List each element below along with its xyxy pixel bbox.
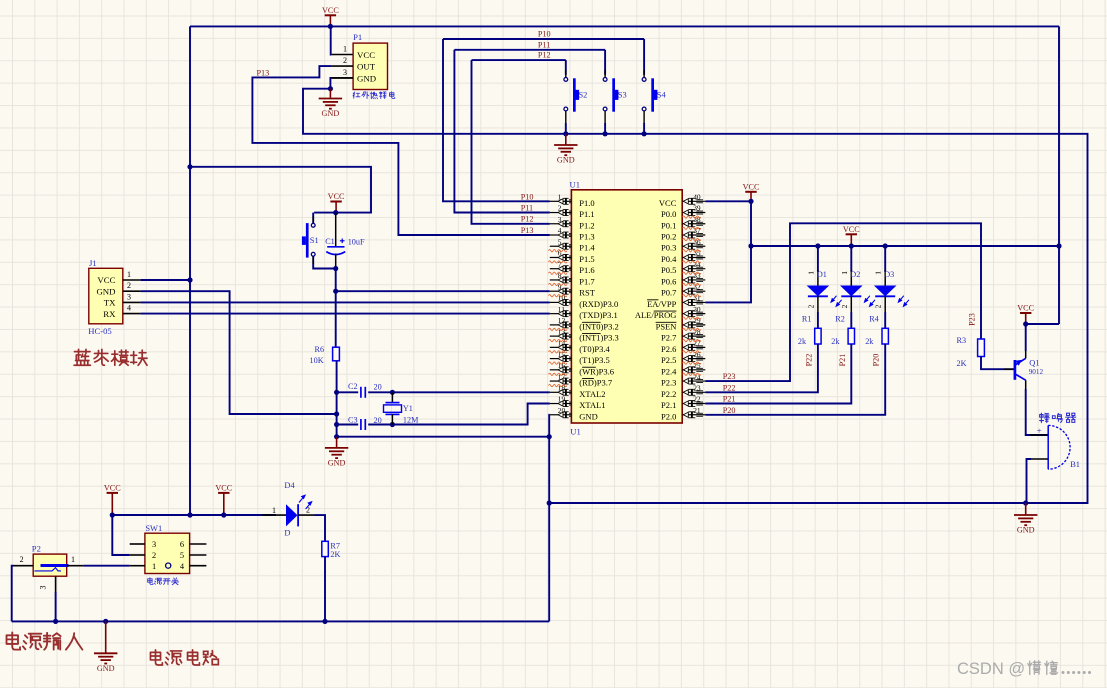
- svg-text:1: 1: [558, 193, 562, 202]
- svg-text:1: 1: [840, 271, 849, 275]
- pin U1.36 P0.3: [661, 237, 705, 252]
- node RST junction: [333, 289, 338, 294]
- pin U1.28 P2.7: [661, 327, 705, 342]
- svg-text:P0.3: P0.3: [661, 243, 676, 253]
- node power gnd junction: [103, 619, 108, 624]
- label 蓝牙模块: [74, 349, 147, 365]
- svg-text:Y1: Y1: [403, 404, 413, 413]
- svg-text:VCC: VCC: [322, 6, 339, 15]
- wire RST to R6: [335, 291, 337, 347]
- wire RST to U1 pin9: [336, 290, 550, 292]
- svg-text:P23: P23: [723, 372, 736, 381]
- node Y1 top junction: [390, 390, 395, 395]
- svg-text:P1.4: P1.4: [579, 243, 595, 253]
- svg-text:3: 3: [343, 68, 347, 77]
- resistor R1 2k: [798, 312, 821, 346]
- svg-text:R2: R2: [835, 314, 845, 323]
- svg-text:S3: S3: [618, 91, 627, 100]
- svg-text:CSDN @: CSDN @: [957, 660, 1025, 678]
- pin U1.11 (TXD)P3.1: [550, 305, 618, 320]
- node VCC2 junction: [221, 512, 226, 517]
- svg-text:21: 21: [693, 406, 701, 415]
- svg-text:R3: R3: [957, 336, 967, 345]
- wire gnd bottom horizontal: [337, 436, 550, 438]
- svg-text:20: 20: [374, 416, 382, 425]
- power VCC (input 1): [104, 484, 121, 516]
- svg-text:1: 1: [874, 271, 883, 275]
- wire buzzer to gnd: [1027, 459, 1032, 503]
- wire VCC left vertical: [189, 26, 191, 515]
- connector J1: [89, 268, 123, 324]
- svg-text:1: 1: [71, 555, 75, 564]
- wire J1 RX to U1 TXD: [141, 313, 550, 315]
- svg-text:2: 2: [343, 56, 347, 65]
- pin U1.10 (RXD)P3.0: [550, 294, 618, 309]
- ground symbol (power input): [94, 621, 117, 672]
- svg-text:2k: 2k: [798, 337, 807, 346]
- svg-text:SW1: SW1: [145, 524, 162, 533]
- svg-text:P0.0: P0.0: [661, 209, 676, 219]
- wire VCC top rail: [190, 25, 1059, 27]
- wire D4 pin2 to R7: [315, 515, 326, 541]
- svg-text:P22: P22: [723, 383, 736, 392]
- pin U1.16 (WR)P3.6: [550, 361, 614, 376]
- svg-text:P1.0: P1.0: [579, 198, 594, 208]
- wire P20 from R4 to U1: [705, 344, 885, 415]
- pin U1.18 XTAL2: [550, 383, 606, 398]
- node J1-gnd junction: [334, 411, 339, 416]
- svg-text:R7: R7: [330, 542, 340, 551]
- pin U1.37 P0.2: [661, 226, 705, 241]
- pushbutton S4: [642, 39, 666, 134]
- svg-text:VCC: VCC: [843, 225, 860, 234]
- svg-text:6: 6: [180, 540, 184, 549]
- wire VCC right vertical: [1058, 26, 1060, 324]
- svg-text:P1.6: P1.6: [579, 265, 594, 275]
- transistor Q1 9012: [1004, 350, 1044, 390]
- wire power VCC rail: [112, 514, 276, 516]
- pin U1.23 P2.2: [661, 383, 705, 398]
- pin P2.2: [14, 555, 33, 566]
- svg-text:2k: 2k: [865, 337, 874, 346]
- wire Q1 emitter to VCC: [1025, 324, 1027, 351]
- wire P21 from R2 to U1: [705, 344, 851, 404]
- svg-text:P13: P13: [521, 226, 534, 235]
- svg-text:39: 39: [693, 204, 701, 213]
- svg-text:(TXD)P3.1: (TXD)P3.1: [579, 310, 617, 320]
- node left-vertical end junction: [187, 512, 192, 517]
- svg-text:3: 3: [558, 215, 562, 224]
- label 电源开关: [148, 578, 179, 585]
- svg-text:RX: RX: [103, 309, 116, 319]
- svg-text:1: 1: [152, 562, 156, 571]
- svg-text:VCC: VCC: [215, 484, 232, 493]
- pin U1.38 P0.1: [661, 215, 705, 230]
- svg-text:3: 3: [152, 540, 156, 549]
- svg-text:P1.3: P1.3: [579, 232, 594, 242]
- svg-text:TX: TX: [104, 298, 116, 308]
- pin U1.33 P0.6: [661, 271, 705, 286]
- svg-text:GND: GND: [96, 286, 115, 296]
- svg-text:GND: GND: [322, 109, 340, 118]
- svg-text:GND: GND: [1017, 526, 1035, 535]
- svg-text:2K: 2K: [957, 359, 967, 368]
- node gnd/right-rail junction: [547, 500, 552, 505]
- svg-text:P13: P13: [257, 68, 270, 77]
- svg-text:U1: U1: [570, 180, 581, 190]
- power VCC (S1/C1): [328, 192, 345, 213]
- svg-text:1: 1: [806, 271, 815, 275]
- wire J1 VCC: [141, 279, 190, 281]
- wire R3 to Q1 base: [981, 357, 1014, 370]
- svg-text:5: 5: [180, 551, 184, 560]
- svg-text:5: 5: [558, 237, 562, 246]
- svg-text:D1: D1: [817, 270, 827, 279]
- svg-text:XTAL1: XTAL1: [579, 400, 605, 410]
- svg-text:2: 2: [840, 304, 849, 308]
- resistor R4 2k: [865, 312, 888, 346]
- resistor R2 2k: [831, 312, 854, 346]
- svg-text:P1: P1: [353, 32, 362, 42]
- svg-text:HC-05: HC-05: [88, 326, 111, 336]
- svg-text:3: 3: [127, 292, 131, 301]
- no-ERC squiggle marks (right): [683, 216, 701, 376]
- svg-text:10uF: 10uF: [348, 238, 365, 247]
- node Y1 bottom junction: [390, 422, 395, 427]
- svg-text:P2.7: P2.7: [661, 333, 676, 343]
- pin U1.30 ALE/PROG: [635, 305, 705, 320]
- svg-text:2K: 2K: [330, 550, 340, 559]
- wire XTAL2 net: [337, 391, 550, 393]
- svg-text:P1.1: P1.1: [579, 209, 594, 219]
- svg-text:C3: C3: [348, 415, 358, 424]
- svg-text:D4: D4: [284, 481, 295, 490]
- node LED rail/VCC junction: [748, 243, 753, 248]
- svg-text:P12: P12: [538, 51, 551, 60]
- node S1/C1 VCC junction: [333, 210, 338, 215]
- node J1 VCC junction: [187, 277, 192, 282]
- capacitor C1 10uF: [325, 213, 365, 269]
- node U1 VCC junction: [748, 199, 753, 204]
- wire P2.3 to bottom rail: [55, 592, 57, 621]
- svg-text:11: 11: [558, 305, 565, 314]
- pin U1.6 P1.5: [550, 249, 595, 264]
- watermark CSDN: [957, 660, 1091, 678]
- wire net P10: [443, 38, 644, 40]
- svg-text:EA/VPP: EA/VPP: [647, 299, 677, 309]
- svg-text:P2.0: P2.0: [661, 411, 676, 421]
- wire D4 pin1 rail: [224, 514, 262, 516]
- svg-text:OUT: OUT: [357, 62, 376, 72]
- wire P11 vertical to U1 pin2: [454, 50, 549, 213]
- ground symbol (buzzer): [1014, 503, 1037, 535]
- svg-text:10K: 10K: [310, 356, 324, 365]
- svg-text:B1: B1: [1070, 460, 1080, 469]
- svg-text:S4: S4: [657, 91, 667, 100]
- pin J1.4: [123, 304, 141, 314]
- pin P2.3: [39, 576, 56, 592]
- wire XTAL1 net: [337, 404, 550, 425]
- node gnd bottom junction: [334, 434, 339, 439]
- svg-text:2: 2: [874, 304, 883, 308]
- svg-text:20: 20: [558, 406, 566, 415]
- pin J1.2: [123, 281, 141, 291]
- pushbutton S2: [564, 60, 587, 134]
- svg-text:P1.7: P1.7: [579, 276, 594, 286]
- svg-text:P1.5: P1.5: [579, 254, 594, 264]
- svg-text:(T1)P3.5: (T1)P3.5: [579, 355, 609, 365]
- svg-text:S2: S2: [579, 91, 588, 100]
- node rail corner junction: [1056, 243, 1061, 248]
- pin J1.3: [123, 292, 141, 302]
- pin U1.39 P0.0: [661, 204, 705, 219]
- svg-text:P20: P20: [872, 354, 881, 367]
- pin U1.34 P0.5: [661, 260, 705, 275]
- svg-text:VCC: VCC: [328, 192, 345, 201]
- wire GND net from P1 to right edge: [303, 89, 1088, 503]
- svg-text:PSEN: PSEN: [656, 321, 677, 331]
- svg-text:2k: 2k: [831, 337, 840, 346]
- node Q1 VCC junction: [1023, 321, 1028, 326]
- pin U1.5 P1.4: [550, 237, 596, 252]
- pin P1.1: [332, 45, 354, 55]
- svg-text:VCC: VCC: [743, 182, 760, 191]
- pushbutton S1: [302, 213, 336, 269]
- svg-text:VCC: VCC: [659, 198, 677, 208]
- wire P2.2 to bottom rail: [12, 566, 14, 622]
- pin U1.13 (INT1)P3.3: [550, 327, 619, 342]
- pin U1.27 P2.6: [661, 339, 705, 354]
- pin U1.19 XTAL1: [550, 395, 606, 410]
- pushbutton S3: [603, 50, 626, 134]
- pin P2.1: [67, 555, 84, 566]
- wire U1 VCC pin: [705, 200, 751, 202]
- pin U1.20 GND: [550, 406, 598, 421]
- node VCC1 junction: [110, 512, 115, 517]
- pin J1.1: [123, 270, 141, 280]
- wire VCC to EA/VPP: [705, 201, 751, 302]
- svg-text:2: 2: [127, 281, 131, 290]
- svg-text:2: 2: [558, 204, 562, 213]
- svg-text:P0.7: P0.7: [661, 288, 676, 298]
- svg-text:P21: P21: [838, 354, 847, 367]
- pin U1.9 RST: [550, 282, 596, 297]
- svg-text:Q1: Q1: [1029, 359, 1039, 368]
- svg-text:(RXD)P3.0: (RXD)P3.0: [579, 299, 618, 309]
- svg-text:RST: RST: [579, 288, 595, 298]
- wire P1 pin1 to VCC: [330, 26, 333, 54]
- pin U1.1 P1.0: [550, 193, 595, 208]
- wire U1 GND down: [548, 415, 551, 622]
- svg-text:P2.2: P2.2: [661, 389, 676, 399]
- pin U1.17 (RD)P3.7: [550, 372, 612, 387]
- svg-text:XTAL2: XTAL2: [579, 389, 605, 399]
- svg-text:P0.4: P0.4: [661, 254, 677, 264]
- svg-text:VCC: VCC: [1017, 304, 1034, 313]
- node C1 bottom junction: [333, 266, 338, 271]
- svg-text:P2.1: P2.1: [661, 400, 676, 410]
- node S3 to gnd wire: [603, 131, 608, 136]
- node gnd/U1 junction: [547, 434, 552, 439]
- node D1 rail junction: [815, 243, 820, 248]
- svg-text:D: D: [284, 529, 290, 538]
- svg-text:VCC: VCC: [357, 50, 375, 60]
- wire net P13 from P1.OUT: [252, 66, 549, 235]
- svg-text:20: 20: [374, 383, 382, 392]
- ground symbol under S2: [554, 134, 577, 165]
- node D2 rail junction: [849, 243, 854, 248]
- node S4 to gnd wire: [642, 131, 647, 136]
- svg-text:P2.5: P2.5: [661, 355, 676, 365]
- pin U1.32 P0.7: [661, 282, 705, 297]
- wire net P23 route: [705, 223, 981, 381]
- label 电源电路: [150, 650, 218, 665]
- wire J1 GND route: [141, 291, 337, 414]
- LED D1: [806, 246, 841, 312]
- svg-text:(T0)P3.4: (T0)P3.4: [579, 344, 610, 354]
- svg-text:P1.2: P1.2: [579, 220, 594, 230]
- label 蜂鸣器: [1040, 413, 1076, 422]
- svg-text:P0.1: P0.1: [661, 220, 676, 230]
- svg-text:P10: P10: [538, 30, 551, 39]
- ground symbol (reset group): [325, 437, 348, 468]
- svg-text:D3: D3: [884, 270, 894, 279]
- svg-text:23: 23: [693, 383, 701, 392]
- svg-text:P10: P10: [521, 192, 534, 201]
- buzzer B1: [1030, 425, 1080, 469]
- LED D2: [840, 246, 875, 312]
- svg-text:22: 22: [693, 395, 701, 404]
- pin U1.15 (T1)P3.5: [550, 350, 610, 365]
- pin U1.29 PSEN: [656, 316, 706, 331]
- svg-text:R4: R4: [869, 314, 879, 323]
- pin U1.8 P1.7: [550, 271, 595, 286]
- node C2 left junction: [334, 390, 339, 395]
- svg-text:19: 19: [558, 395, 566, 404]
- crystal Y1 12M: [384, 392, 420, 424]
- svg-text:VCC: VCC: [97, 275, 115, 285]
- svg-text:P0.2: P0.2: [661, 232, 676, 242]
- wire net P11: [454, 49, 605, 51]
- svg-text:GND: GND: [97, 664, 115, 673]
- svg-text:VCC: VCC: [104, 484, 121, 493]
- svg-text:1: 1: [127, 270, 131, 279]
- pin U1.14 (T0)P3.4: [550, 339, 611, 354]
- svg-text:12M: 12M: [403, 416, 419, 425]
- svg-text:J1: J1: [89, 258, 97, 268]
- svg-text:2: 2: [20, 555, 24, 564]
- svg-text:GND: GND: [328, 458, 346, 467]
- power VCC (U1 pin40): [743, 182, 760, 201]
- wire RST node vertical: [335, 269, 337, 292]
- capacitor C3 20: [348, 415, 382, 430]
- svg-text:3: 3: [39, 586, 48, 590]
- svg-text:4: 4: [558, 226, 562, 235]
- node S2 to gnd wire: [563, 131, 568, 136]
- svg-text:S1: S1: [310, 236, 319, 245]
- svg-text:1: 1: [343, 45, 347, 54]
- svg-text:P2: P2: [32, 544, 41, 554]
- power VCC (top): [322, 6, 339, 27]
- svg-text:U1: U1: [570, 427, 581, 437]
- ground symbol under P1: [319, 89, 342, 118]
- pin U1.3 P1.2: [550, 215, 595, 230]
- wire Q1 collector to buzzer: [1026, 389, 1049, 435]
- svg-text:P0.5: P0.5: [661, 265, 676, 275]
- svg-text:+: +: [1037, 426, 1042, 436]
- label 电源输入: [7, 632, 83, 649]
- node VCC/P1 junction: [328, 24, 333, 29]
- svg-text:P11: P11: [538, 40, 550, 49]
- wire VCC to Q1 emitter rail: [1026, 323, 1059, 325]
- wire P12 vertical to U1 pin3: [472, 60, 550, 224]
- svg-text:4: 4: [127, 304, 131, 313]
- label 红外热释电: [353, 92, 395, 99]
- pin P1.2: [332, 56, 354, 66]
- resistor R3 2K: [957, 336, 985, 368]
- pin U1.26 P2.5: [661, 350, 705, 365]
- svg-text:R6: R6: [315, 345, 325, 354]
- svg-text:C1: C1: [325, 237, 335, 246]
- pin U1.7 P1.6: [550, 260, 595, 275]
- node C3 left junction: [334, 422, 339, 427]
- wire P10 vertical to U1 pin1: [443, 39, 550, 201]
- op-amp/IC U1 AT89C51 body: [571, 190, 682, 423]
- svg-text:P21: P21: [723, 395, 736, 404]
- pin U1.40 VCC: [659, 193, 705, 208]
- wire R7 to rail: [324, 557, 326, 622]
- svg-text:P20: P20: [723, 406, 736, 415]
- wire R6 to gnd vertical: [336, 361, 338, 437]
- svg-text:P2.4: P2.4: [661, 366, 677, 376]
- svg-text:GND: GND: [579, 411, 597, 421]
- power VCC (input 2): [215, 484, 232, 516]
- switch SW1: [130, 533, 207, 573]
- pin U1.24 P2.3: [661, 372, 705, 387]
- svg-text:(INT0)P3.2: (INT0)P3.2: [579, 321, 618, 331]
- power VCC (Q1): [1017, 304, 1034, 324]
- wire J1 TX to U1 RXD: [141, 301, 550, 303]
- power VCC (LED rail): [843, 225, 860, 246]
- pin U1.31 EA/VPP: [647, 294, 705, 309]
- svg-text:P12: P12: [521, 215, 534, 224]
- wire P22 from R1 to U1: [705, 344, 818, 392]
- wire P1 GND pin: [332, 77, 354, 79]
- node P1 gnd junction: [328, 86, 333, 91]
- resistor R7 2K: [322, 541, 341, 559]
- pin U1.22 P2.1: [661, 395, 705, 410]
- svg-text:GND: GND: [357, 73, 376, 83]
- node D3 rail junction: [883, 243, 888, 248]
- svg-text:C2: C2: [348, 382, 358, 391]
- svg-text:(INT1)P3.3: (INT1)P3.3: [579, 333, 618, 343]
- svg-text:P11: P11: [521, 204, 533, 213]
- pin U1.25 P2.4: [661, 361, 705, 376]
- capacitor C2 20: [348, 382, 382, 398]
- pin U1.4 P1.3: [550, 226, 595, 241]
- svg-text:P2.6: P2.6: [661, 344, 676, 354]
- node P2.3 junction: [53, 619, 58, 624]
- pin U1.2 P1.1: [550, 204, 595, 219]
- svg-text:GND: GND: [557, 156, 575, 165]
- node R7 bottom junction: [322, 619, 327, 624]
- svg-text:R1: R1: [802, 314, 812, 323]
- connector P2: [33, 554, 68, 576]
- svg-text:1: 1: [272, 506, 276, 515]
- wire bottom gnd rail: [12, 620, 550, 622]
- svg-text:40: 40: [693, 193, 701, 202]
- svg-text:12: 12: [558, 316, 566, 325]
